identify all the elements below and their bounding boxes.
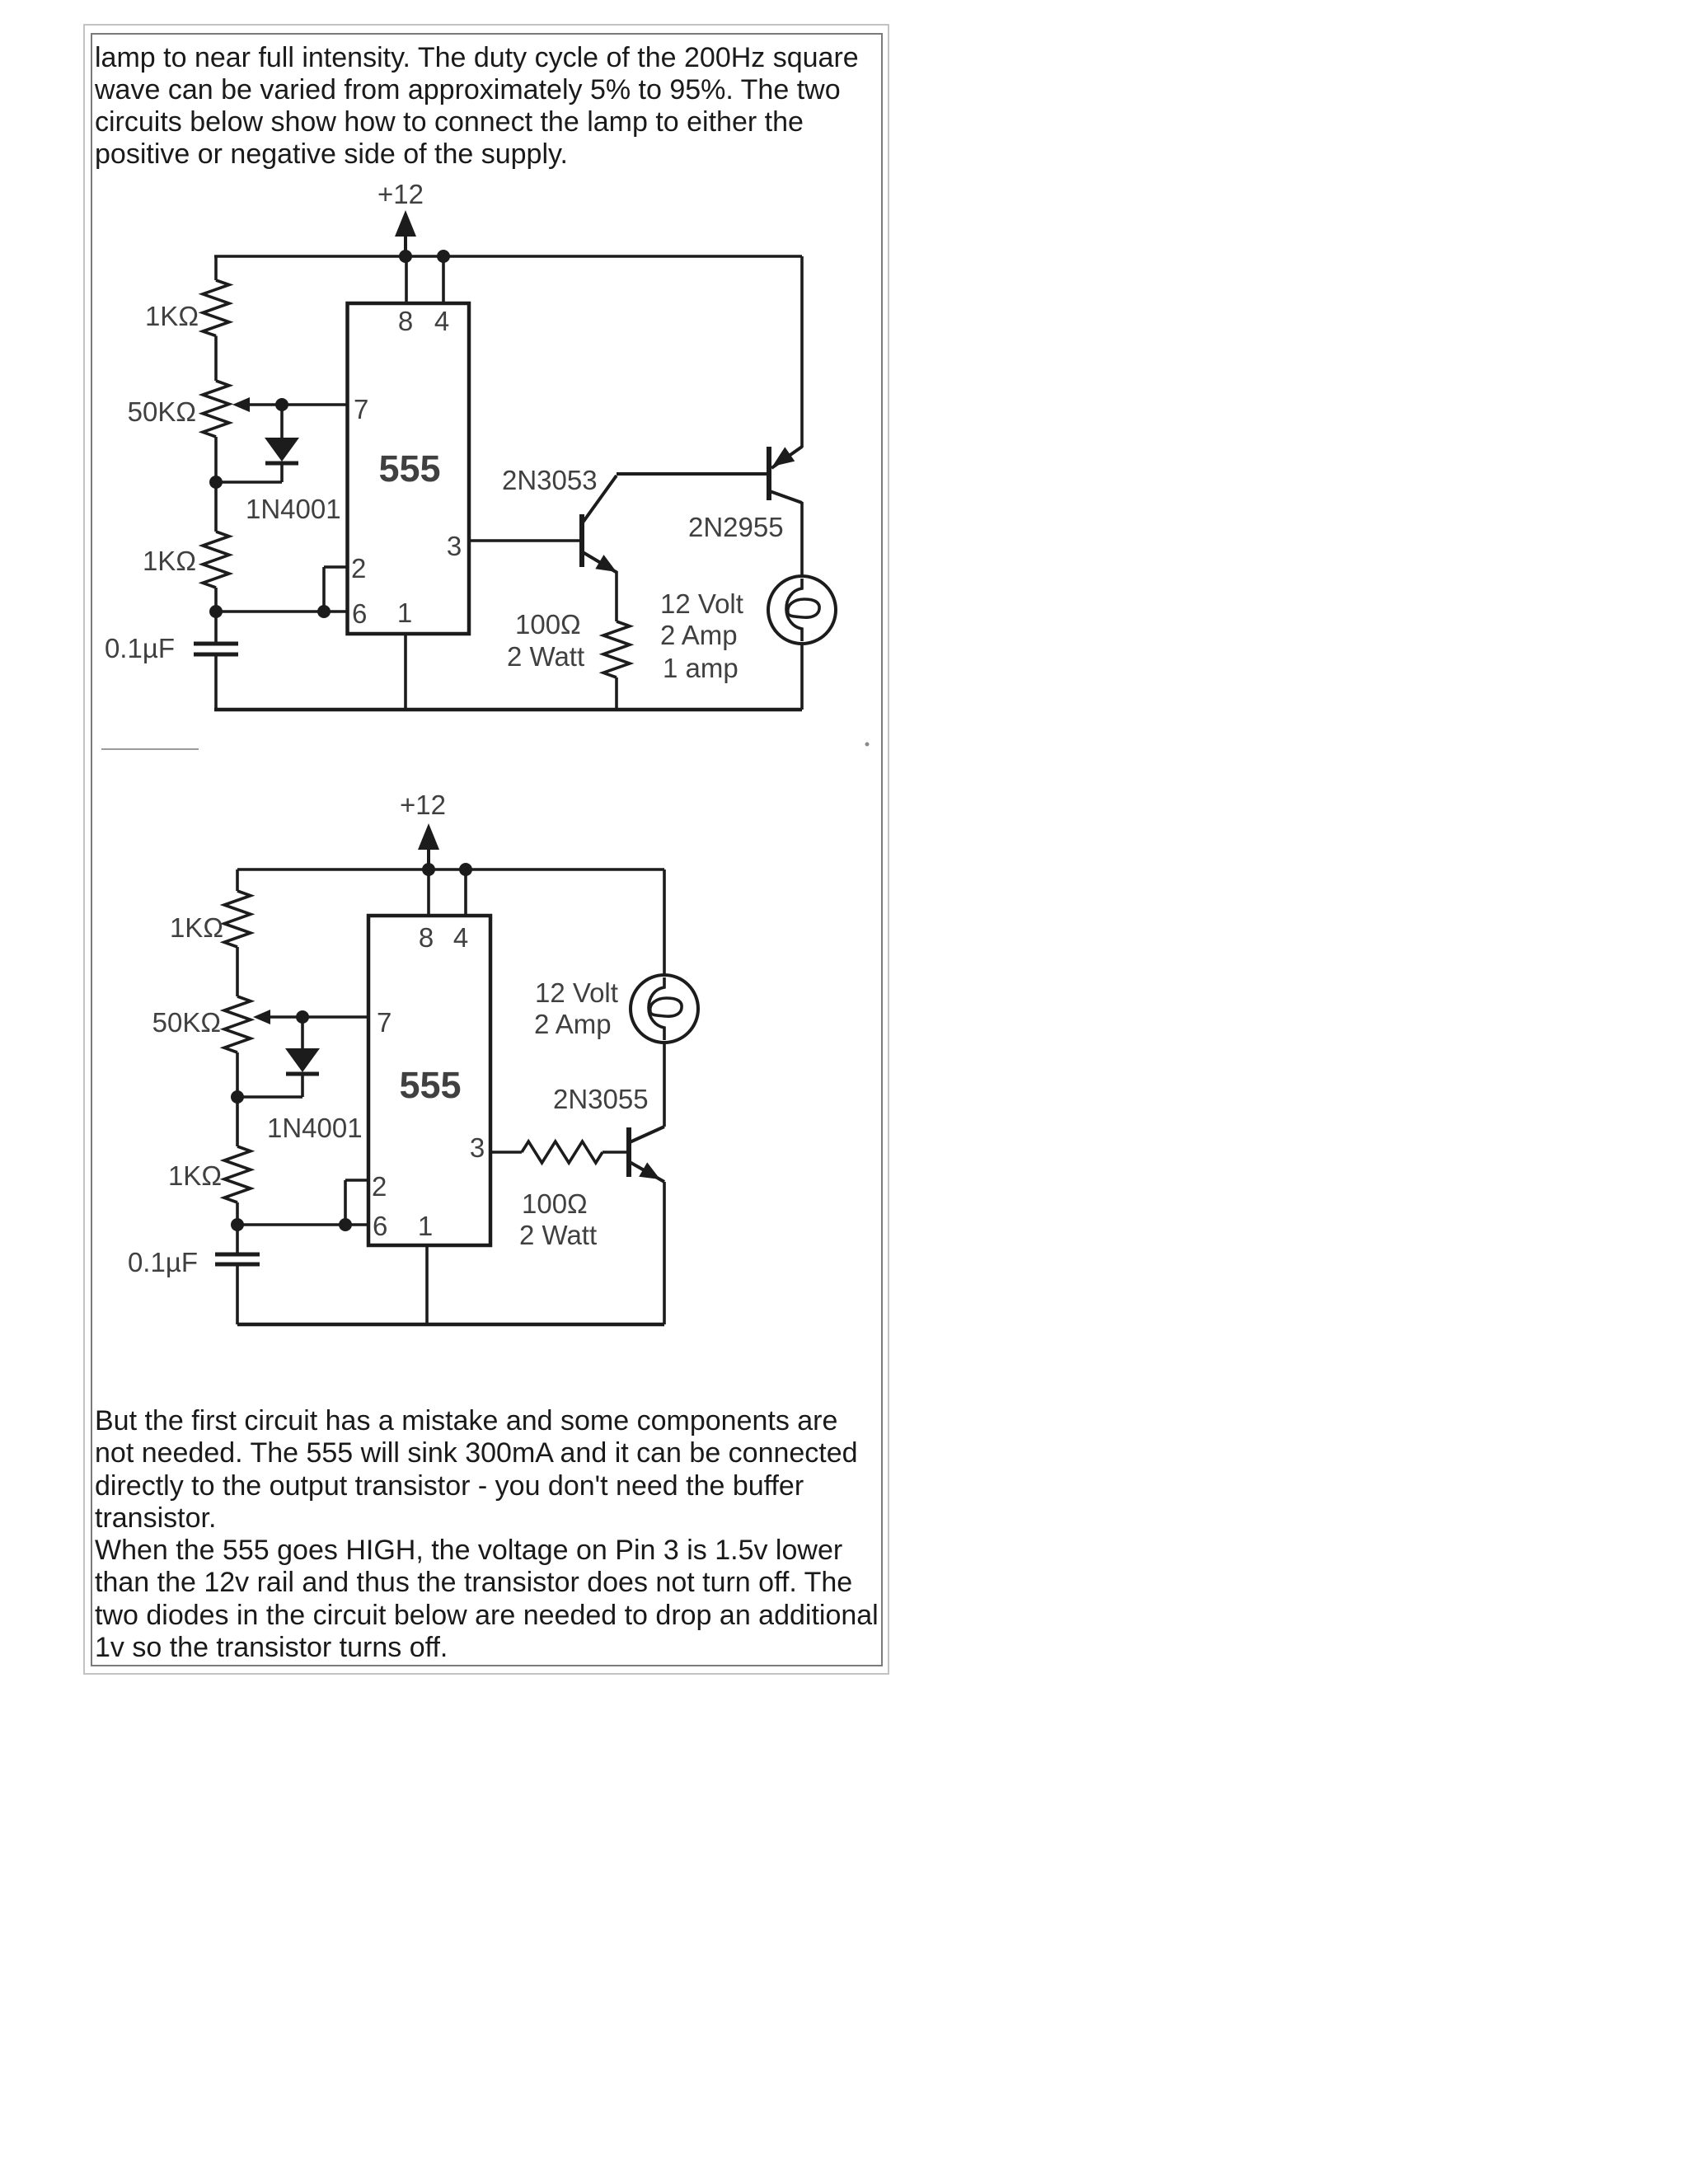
svg-text:1N4001: 1N4001: [246, 494, 341, 524]
svg-text:0.1µF: 0.1µF: [128, 1247, 198, 1277]
svg-text:3: 3: [447, 531, 462, 561]
svg-text:2 Watt: 2 Watt: [507, 641, 584, 672]
svg-text:1KΩ: 1KΩ: [145, 301, 199, 331]
svg-text:7: 7: [354, 394, 368, 424]
svg-text:555: 555: [399, 1064, 461, 1106]
svg-text:0.1µF: 0.1µF: [105, 633, 175, 663]
svg-text:100Ω: 100Ω: [522, 1188, 588, 1219]
svg-text:1KΩ: 1KΩ: [168, 1160, 222, 1191]
svg-text:2 Watt: 2 Watt: [519, 1220, 597, 1250]
svg-text:6: 6: [352, 598, 367, 629]
svg-text:2: 2: [372, 1171, 387, 1202]
svg-text:3: 3: [470, 1132, 485, 1163]
svg-text:2N3055: 2N3055: [553, 1084, 649, 1114]
svg-text:1KΩ: 1KΩ: [170, 912, 223, 943]
svg-text:555: 555: [378, 448, 440, 490]
svg-text:2: 2: [351, 553, 366, 583]
svg-text:1: 1: [397, 598, 412, 628]
svg-text:4: 4: [434, 306, 449, 336]
svg-text:2N3053: 2N3053: [502, 465, 598, 495]
svg-text:8: 8: [398, 306, 413, 336]
svg-text:2N2955: 2N2955: [688, 512, 784, 542]
svg-text:7: 7: [377, 1007, 392, 1038]
svg-text:50KΩ: 50KΩ: [128, 396, 196, 427]
svg-text:4: 4: [453, 922, 468, 953]
svg-text:8: 8: [419, 922, 434, 953]
svg-text:+12: +12: [377, 179, 424, 209]
svg-text:1N4001: 1N4001: [267, 1113, 363, 1143]
svg-text:+12: +12: [400, 790, 446, 820]
svg-text:2 Amp: 2 Amp: [534, 1009, 612, 1039]
svg-text:12 Volt: 12 Volt: [535, 977, 618, 1008]
svg-text:2 Amp: 2 Amp: [660, 620, 738, 650]
svg-text:1: 1: [418, 1211, 433, 1241]
svg-text:12 Volt: 12 Volt: [660, 588, 743, 619]
svg-text:1 amp: 1 amp: [663, 653, 738, 683]
svg-text:50KΩ: 50KΩ: [152, 1007, 221, 1038]
svg-text:100Ω: 100Ω: [515, 609, 581, 640]
svg-text:1KΩ: 1KΩ: [143, 546, 196, 576]
svg-text:6: 6: [373, 1211, 387, 1241]
